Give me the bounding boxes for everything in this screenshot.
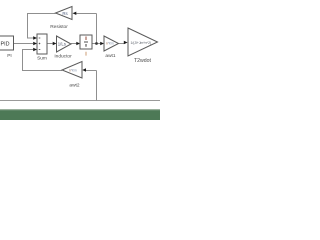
arrowhead into awt1 [100, 42, 104, 45]
wire bottom feedback vertical up [96, 71, 98, 101]
wire top feedback down to Sum input 1 [28, 13, 34, 38]
arrowhead into Inductor [53, 42, 57, 45]
wire awt1 output to T2wdot [119, 43, 125, 45]
svg-text:n*Km: n*Km [69, 69, 77, 73]
svg-text:n*Km: n*Km [106, 42, 114, 46]
svg-text:Resistor: Resistor [50, 24, 68, 30]
junction dot [95, 42, 98, 45]
arrowhead into Resistor [73, 12, 77, 15]
gain block Inductor 1/Ls [57, 36, 72, 52]
wire top feedback vertical from junction up [96, 14, 98, 44]
integrator block 1/s [80, 35, 92, 49]
svg-text:1/Ls: 1/Ls [58, 42, 66, 47]
arrowhead into awt2 [82, 68, 86, 71]
wire Resistor output left [27, 13, 56, 15]
gain block Resistor Rs [56, 7, 73, 20]
green bar bottom [0, 109, 160, 120]
svg-text:awt2: awt2 [69, 82, 79, 88]
svg-text:T2wdot: T2wdot [134, 58, 152, 64]
wire PID output to Sum [14, 43, 34, 45]
sum block Sum [37, 34, 47, 54]
svg-text:Inductor: Inductor [54, 54, 72, 60]
wire top feedback horizontal to Resistor input [76, 13, 97, 15]
gain block awt2 [62, 62, 82, 79]
gain block awt1 [104, 36, 119, 51]
svg-text:Sum: Sum [37, 56, 47, 62]
arrowhead into Sum input 1 [33, 36, 37, 39]
svg-text:PI: PI [7, 53, 12, 59]
svg-text:Rs: Rs [62, 11, 68, 16]
wire awt2 output left [22, 70, 62, 72]
canvas background [0, 0, 160, 120]
svg-text:PID: PID [1, 42, 10, 48]
arrowhead into Integrator [76, 42, 80, 45]
wire bottom full-width [0, 100, 160, 102]
arrowhead into Sum input 2 [33, 42, 37, 45]
gain block T2wdot 1/(Jl+Jm*n^2) [128, 28, 158, 56]
wire bottom feedback up to Sum input 3 [23, 50, 34, 72]
wire Sum output to Inductor [47, 43, 53, 45]
svg-text:awt1: awt1 [105, 53, 115, 59]
wire Integrator output to awt1 [92, 43, 100, 45]
wire Inductor output to Integrator [71, 43, 77, 45]
arrowhead into Sum input 3 [33, 48, 37, 51]
arrowhead into T2wdot [124, 41, 128, 44]
label I [85, 52, 87, 56]
PID controller block PI [0, 36, 14, 50]
wire bottom feedback to awt2 input [86, 70, 97, 72]
svg-text:1/(Jl+Jm*n^2): 1/(Jl+Jm*n^2) [130, 41, 151, 45]
